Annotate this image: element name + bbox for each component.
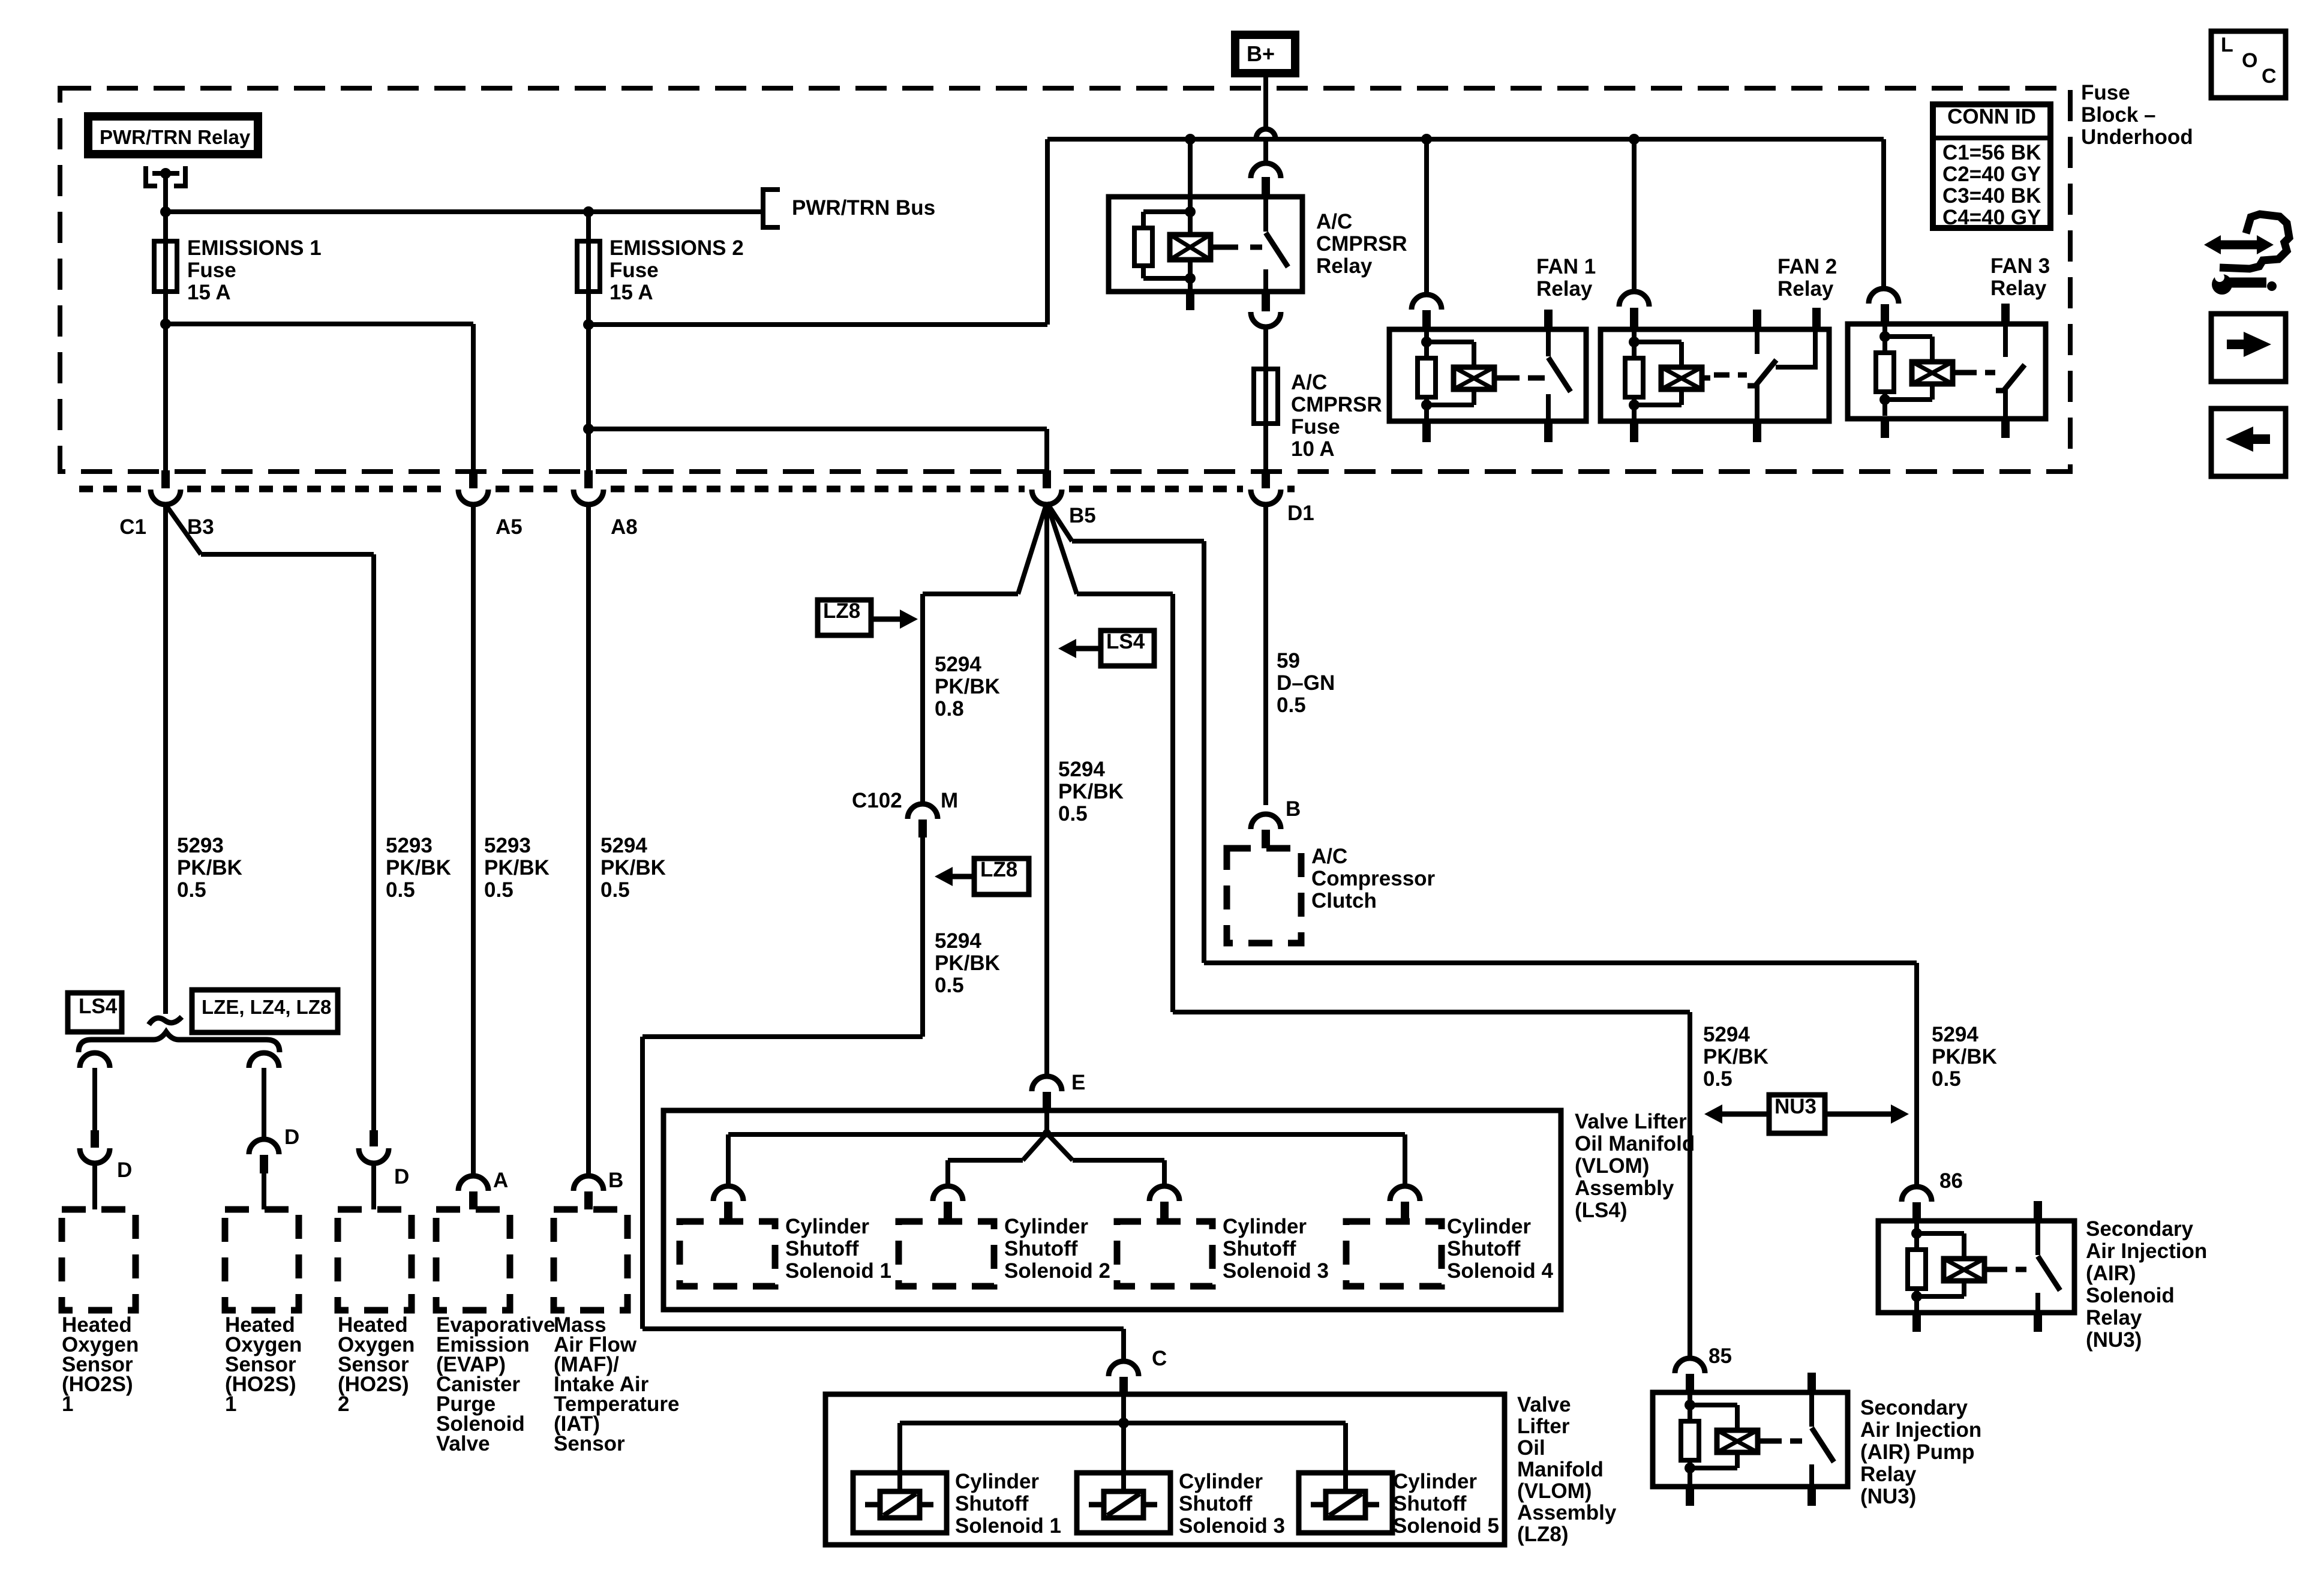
svg-text:FAN 1: FAN 1 xyxy=(1536,255,1596,278)
svg-text:C1=56 BK: C1=56 BK xyxy=(1942,141,2041,164)
svg-text:Solenoid 1: Solenoid 1 xyxy=(955,1514,1061,1538)
svg-text:Cylinder: Cylinder xyxy=(1004,1215,1088,1238)
svg-text:Cylinder: Cylinder xyxy=(785,1215,869,1238)
svg-text:B: B xyxy=(608,1169,623,1192)
svg-text:Fuse: Fuse xyxy=(1291,415,1340,439)
svg-text:EMISSIONS 2: EMISSIONS 2 xyxy=(609,236,744,260)
svg-text:D: D xyxy=(117,1158,132,1182)
svg-text:PK/BK: PK/BK xyxy=(484,856,550,879)
svg-text:Shutoff: Shutoff xyxy=(1447,1237,1521,1260)
svg-text:PK/BK: PK/BK xyxy=(177,856,242,879)
svg-text:Solenoid 1: Solenoid 1 xyxy=(785,1259,891,1283)
svg-text:PK/BK: PK/BK xyxy=(386,856,451,879)
svg-text:Shutoff: Shutoff xyxy=(1179,1492,1253,1515)
svg-text:Cylinder: Cylinder xyxy=(1393,1470,1477,1493)
svg-text:Sensor: Sensor xyxy=(554,1432,625,1455)
svg-text:(VLOM): (VLOM) xyxy=(1575,1154,1649,1178)
svg-text:PK/BK: PK/BK xyxy=(1058,780,1124,803)
svg-text:0.5: 0.5 xyxy=(1932,1067,1961,1091)
svg-text:Clutch: Clutch xyxy=(1311,889,1377,912)
svg-text:Solenoid 2: Solenoid 2 xyxy=(1004,1259,1110,1283)
svg-text:PK/BK: PK/BK xyxy=(1703,1045,1768,1068)
svg-text:Shutoff: Shutoff xyxy=(785,1237,859,1260)
svg-text:5293: 5293 xyxy=(484,834,531,857)
svg-text:Air Injection: Air Injection xyxy=(1860,1418,1981,1442)
svg-text:Valve Lifter: Valve Lifter xyxy=(1575,1110,1687,1133)
svg-text:10 A: 10 A xyxy=(1291,437,1335,461)
svg-text:Oil Manifold: Oil Manifold xyxy=(1575,1132,1695,1155)
svg-text:LZ8: LZ8 xyxy=(980,858,1017,881)
svg-text:C4=40 GY: C4=40 GY xyxy=(1942,206,2041,229)
svg-text:Cylinder: Cylinder xyxy=(1223,1215,1307,1238)
svg-text:CONN ID: CONN ID xyxy=(1947,105,2036,128)
svg-text:FAN 3: FAN 3 xyxy=(1990,254,2050,278)
svg-text:Relay: Relay xyxy=(1536,277,1593,301)
svg-text:Manifold: Manifold xyxy=(1517,1458,1604,1481)
svg-text:Secondary: Secondary xyxy=(1860,1396,1968,1419)
svg-text:(LS4): (LS4) xyxy=(1575,1199,1628,1222)
svg-text:(AIR): (AIR) xyxy=(2086,1262,2136,1285)
svg-text:0.5: 0.5 xyxy=(600,878,630,902)
svg-text:C: C xyxy=(2262,65,2277,88)
svg-text:5294: 5294 xyxy=(1932,1023,1978,1046)
svg-text:Underhood: Underhood xyxy=(2081,125,2193,149)
svg-text:0.5: 0.5 xyxy=(484,878,514,902)
svg-text:0.8: 0.8 xyxy=(935,697,964,721)
svg-text:C2=40 GY: C2=40 GY xyxy=(1942,163,2041,186)
svg-text:15 A: 15 A xyxy=(187,281,231,304)
svg-text:D: D xyxy=(284,1125,299,1149)
svg-text:LS4: LS4 xyxy=(79,995,118,1018)
svg-text:L: L xyxy=(2221,34,2233,56)
svg-text:Lifter: Lifter xyxy=(1517,1415,1570,1438)
svg-text:D1: D1 xyxy=(1287,502,1314,525)
svg-text:5293: 5293 xyxy=(386,834,433,857)
svg-text:1: 1 xyxy=(62,1392,73,1416)
svg-text:PK/BK: PK/BK xyxy=(935,951,1000,975)
svg-text:Fuse: Fuse xyxy=(187,259,236,282)
svg-text:Valve: Valve xyxy=(436,1432,490,1455)
svg-text:LS4: LS4 xyxy=(1106,630,1145,653)
svg-text:Cylinder: Cylinder xyxy=(1447,1215,1531,1238)
svg-text:Shutoff: Shutoff xyxy=(1223,1237,1296,1260)
svg-text:D: D xyxy=(394,1165,409,1188)
svg-text:NU3: NU3 xyxy=(1774,1095,1816,1118)
svg-text:85: 85 xyxy=(1709,1344,1732,1368)
svg-text:1: 1 xyxy=(225,1392,236,1416)
svg-text:0.5: 0.5 xyxy=(386,878,415,902)
svg-text:(NU3): (NU3) xyxy=(1860,1485,1916,1508)
svg-text:15 A: 15 A xyxy=(609,281,653,304)
svg-text:CMPRSR: CMPRSR xyxy=(1316,232,1407,256)
svg-text:Solenoid: Solenoid xyxy=(2086,1284,2175,1307)
svg-text:LZE, LZ4, LZ8: LZE, LZ4, LZ8 xyxy=(202,996,331,1018)
svg-text:PK/BK: PK/BK xyxy=(935,675,1000,698)
svg-text:PK/BK: PK/BK xyxy=(600,856,666,879)
svg-text:B+: B+ xyxy=(1247,41,1275,66)
svg-text:A: A xyxy=(493,1169,508,1192)
svg-text:5294: 5294 xyxy=(935,929,981,953)
svg-text:C102: C102 xyxy=(852,789,902,812)
svg-text:Valve: Valve xyxy=(1517,1393,1571,1416)
svg-text:0.5: 0.5 xyxy=(1703,1067,1733,1091)
svg-text:Fuse: Fuse xyxy=(2081,81,2130,104)
svg-text:B: B xyxy=(1286,797,1301,821)
svg-text:CMPRSR: CMPRSR xyxy=(1291,393,1382,416)
svg-text:A/C: A/C xyxy=(1291,371,1327,394)
svg-text:Shutoff: Shutoff xyxy=(1004,1237,1078,1260)
svg-text:B3: B3 xyxy=(187,515,214,539)
svg-text:Fuse: Fuse xyxy=(609,259,659,282)
svg-text:59: 59 xyxy=(1277,649,1300,673)
svg-text:D–GN: D–GN xyxy=(1277,671,1335,695)
svg-text:(VLOM): (VLOM) xyxy=(1517,1479,1592,1503)
svg-text:Relay: Relay xyxy=(1860,1463,1917,1486)
svg-text:EMISSIONS 1: EMISSIONS 1 xyxy=(187,236,322,260)
svg-text:0.5: 0.5 xyxy=(177,878,206,902)
svg-text:PWR/TRN Bus: PWR/TRN Bus xyxy=(792,196,935,220)
svg-text:Secondary: Secondary xyxy=(2086,1217,2193,1241)
svg-text:Solenoid 3: Solenoid 3 xyxy=(1223,1259,1329,1283)
svg-text:FAN 2: FAN 2 xyxy=(1777,255,1837,278)
svg-text:Relay: Relay xyxy=(1316,254,1373,278)
svg-text:Solenoid 4: Solenoid 4 xyxy=(1447,1259,1554,1283)
svg-text:Shutoff: Shutoff xyxy=(955,1492,1029,1515)
svg-text:0.5: 0.5 xyxy=(1277,694,1306,717)
svg-text:5294: 5294 xyxy=(1058,758,1105,781)
svg-text:Cylinder: Cylinder xyxy=(955,1470,1039,1493)
svg-text:(LZ8): (LZ8) xyxy=(1517,1523,1569,1546)
svg-text:E: E xyxy=(1071,1071,1085,1094)
svg-text:Assembly: Assembly xyxy=(1575,1176,1674,1200)
svg-text:(AIR) Pump: (AIR) Pump xyxy=(1860,1440,1975,1464)
svg-text:Relay: Relay xyxy=(1777,277,1834,301)
svg-text:0.5: 0.5 xyxy=(1058,802,1088,825)
svg-text:Relay: Relay xyxy=(1990,277,2047,300)
svg-text:86: 86 xyxy=(1939,1169,1963,1193)
svg-text:2: 2 xyxy=(338,1392,349,1416)
svg-text:C1: C1 xyxy=(119,515,146,539)
svg-text:O: O xyxy=(2242,49,2257,72)
svg-text:A5: A5 xyxy=(496,515,523,539)
svg-text:PWR/TRN Relay: PWR/TRN Relay xyxy=(100,126,251,148)
svg-text:(NU3): (NU3) xyxy=(2086,1328,2142,1352)
svg-text:C3=40 BK: C3=40 BK xyxy=(1942,184,2041,208)
svg-text:B5: B5 xyxy=(1069,504,1096,527)
svg-text:Solenoid 3: Solenoid 3 xyxy=(1179,1514,1285,1538)
svg-text:0.5: 0.5 xyxy=(935,974,964,997)
svg-text:Cylinder: Cylinder xyxy=(1179,1470,1263,1493)
svg-text:LZ8: LZ8 xyxy=(823,599,860,623)
svg-text:Block –: Block – xyxy=(2081,103,2156,127)
svg-text:Relay: Relay xyxy=(2086,1306,2142,1329)
svg-text:5294: 5294 xyxy=(935,653,981,676)
svg-text:Oil: Oil xyxy=(1517,1436,1545,1460)
svg-text:M: M xyxy=(941,789,958,812)
svg-text:PK/BK: PK/BK xyxy=(1932,1045,1997,1068)
svg-text:Air Injection: Air Injection xyxy=(2086,1239,2207,1263)
svg-text:Solenoid 5: Solenoid 5 xyxy=(1393,1514,1499,1538)
svg-text:C: C xyxy=(1152,1347,1167,1370)
svg-text:A/C: A/C xyxy=(1316,210,1352,233)
svg-text:Shutoff: Shutoff xyxy=(1393,1492,1467,1515)
svg-text:5293: 5293 xyxy=(177,834,224,857)
svg-text:Compressor: Compressor xyxy=(1311,867,1436,890)
svg-text:5294: 5294 xyxy=(1703,1023,1750,1046)
svg-text:Assembly: Assembly xyxy=(1517,1501,1617,1524)
svg-text:A/C: A/C xyxy=(1311,845,1347,868)
svg-text:5294: 5294 xyxy=(600,834,647,857)
svg-text:A8: A8 xyxy=(611,515,638,539)
